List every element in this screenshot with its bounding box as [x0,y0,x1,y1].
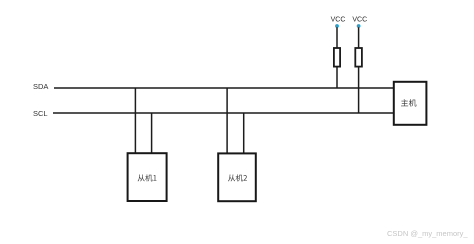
node VCC1 terminal dot [335,24,339,28]
slave box U3 从机2 [218,153,256,201]
node VCC2 terminal dot [357,24,361,28]
wire slave1 SCL drop [151,113,153,153]
wire slave1 SDA drop [134,88,136,153]
wire slave2 SCL drop [243,113,245,153]
wire R1 to SDA bus [336,67,338,88]
wire VCC2 to R2 [358,27,360,48]
master box U1 主机 [394,82,427,125]
svg-text:SDA: SDA [33,82,48,91]
slave box U2 从机1 [128,153,167,201]
svg-text:CSDN @_my_memory_: CSDN @_my_memory_ [387,229,468,238]
wire VCC1 to R1 [336,27,338,48]
svg-text:SCL: SCL [33,109,48,118]
svg-text:VCC: VCC [331,16,346,23]
wire slave2 SDA drop [226,88,228,153]
resistor R2 (SCL pull-up) [355,48,362,67]
wire R2 to SCL bus (crosses SDA) [358,67,360,113]
wire SCL bus [53,112,394,114]
svg-text:VCC: VCC [352,16,367,23]
wire SDA bus [54,87,394,89]
resistor R1 (SDA pull-up) [334,48,340,67]
